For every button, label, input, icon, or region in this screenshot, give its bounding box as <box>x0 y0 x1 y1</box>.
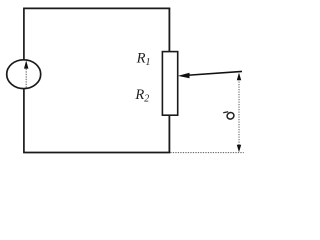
wire top <box>23 7 170 9</box>
wiper arrow wire <box>184 71 242 75</box>
current source arrow shaft <box>25 67 27 88</box>
potentiometer body R1/R2 <box>162 52 177 116</box>
voltage arrowhead down <box>237 145 241 153</box>
wire right upper <box>168 8 170 52</box>
current source circle <box>7 60 41 89</box>
output voltage label (rotated) <box>223 111 235 120</box>
voltage arrowhead up <box>237 73 241 81</box>
wire right lower <box>168 115 170 153</box>
current source arrowhead <box>24 60 28 68</box>
wire left upper <box>23 8 25 60</box>
voltage arrow line (node out) <box>238 74 240 152</box>
wire bottom <box>23 152 170 154</box>
wire left lower <box>23 89 25 153</box>
wiper arrowhead <box>178 73 190 79</box>
wire bottom extension <box>170 152 244 154</box>
